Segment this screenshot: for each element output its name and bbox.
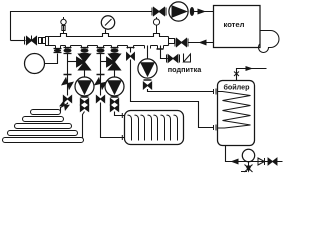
twin shutoff valves bottom of pipe B-right xyxy=(110,99,118,112)
wire: pipe B-left to radiator bottom stub xyxy=(101,103,121,138)
shutoff valve bottom of pipe A-left xyxy=(63,96,71,103)
heat-exchanger coil inside tank xyxy=(218,92,251,129)
flange valve under manifold stub to tank xyxy=(54,49,62,53)
wire: DHW supply pipe to tank coil xyxy=(148,89,214,92)
ball valve on pipe A-right top xyxy=(81,48,89,54)
flange under DHW pump xyxy=(144,79,152,81)
shutoff valve on cold line xyxy=(268,158,277,165)
svg-text:бойлер: бойлер xyxy=(223,83,250,92)
burner on boiler right side xyxy=(259,31,279,53)
pressure gauge on manifold xyxy=(101,16,114,34)
wire: bypass connector group B xyxy=(101,61,107,63)
valve on lower-left pipe xyxy=(11,36,37,45)
wire: pipe A-right down to floor loop xyxy=(83,112,85,139)
pump P2 (group A circuit pump) xyxy=(75,70,94,96)
twin shutoff valves bottom of pipe A-right xyxy=(80,99,88,112)
flange on make-up stub xyxy=(157,48,164,50)
manifold (collector) body xyxy=(46,34,169,49)
wire: supply pipe from pump to boiler xyxy=(194,11,214,13)
coil top stub flange xyxy=(214,89,217,95)
ball valve on DHW return pipe top xyxy=(127,48,135,61)
boiler (котел) xyxy=(214,6,261,48)
wire: bypass connector group A xyxy=(68,61,77,63)
make-up check valve xyxy=(184,54,191,63)
pump P1 (main circulation pump) xyxy=(169,2,188,21)
ball valve on pipe B-left top xyxy=(97,48,105,54)
wire: cold water line under tank xyxy=(226,146,283,162)
wire: make-up line xyxy=(161,46,168,59)
reducer fitting at manifold right end xyxy=(169,39,175,44)
valve under DHW pump xyxy=(143,82,151,89)
valve on return pipe xyxy=(175,39,188,47)
ball valve on pipe B-right top xyxy=(111,48,119,54)
union fitting at manifold left xyxy=(39,38,46,44)
flange on pipe B-left xyxy=(97,74,105,76)
flow arrow on return pipe (pointing to manifold) xyxy=(199,40,207,46)
radiator bottom-left stub xyxy=(121,135,125,140)
drain valve with down arrow under pump xyxy=(241,162,253,173)
balancing valve on pipe B-left xyxy=(95,78,106,89)
wire: pipe A-left xyxy=(67,54,69,96)
wire: pipe B-right to radiator top stub xyxy=(115,112,121,116)
flow arrow into boiler xyxy=(198,9,207,15)
coil bottom stub flange xyxy=(214,125,217,131)
wire: return pipe from boiler to manifold xyxy=(189,42,214,44)
balancing valve on pipe A-left xyxy=(62,78,73,89)
make-up shutoff valve xyxy=(167,55,180,63)
wire: pipe B-left xyxy=(100,54,102,96)
check valve after pump xyxy=(190,8,193,16)
flange under pump A xyxy=(81,96,89,98)
check valve on cold line xyxy=(258,158,265,165)
wire: top supply pipe from manifold loop to pump xyxy=(11,12,153,41)
wire: jog from pipe A-left down to floor loop xyxy=(61,103,68,112)
three-way mixing valve group B xyxy=(107,54,121,70)
automatic air vent right on manifold xyxy=(153,17,159,33)
small valve on jog xyxy=(60,101,69,110)
shutoff valve bottom of pipe B-left xyxy=(96,96,104,103)
recirculation pump (circle) xyxy=(242,149,254,161)
svg-text:подпитка: подпитка xyxy=(168,65,203,74)
wire: DHW return pipe down and right to tank coil xyxy=(131,48,214,128)
svg-text:котел: котел xyxy=(224,20,245,29)
automatic air vent left on manifold xyxy=(61,17,66,34)
radiator top-left stub xyxy=(121,113,125,118)
flange under pump B xyxy=(111,96,119,98)
expansion tank xyxy=(25,54,58,74)
hot water outlet with valve and arrow xyxy=(234,66,267,81)
flow arrow on cold line (pointing to tank) xyxy=(231,159,239,165)
flange on pipe A-left xyxy=(64,74,72,76)
three-way mixing valve group A xyxy=(77,54,91,70)
pump P4 (DHW loading pump) xyxy=(138,46,157,79)
pump P3 (group B circuit pump) xyxy=(105,70,124,96)
ball valve on pipe A-left top xyxy=(64,48,72,54)
valve before main pump xyxy=(152,8,166,16)
